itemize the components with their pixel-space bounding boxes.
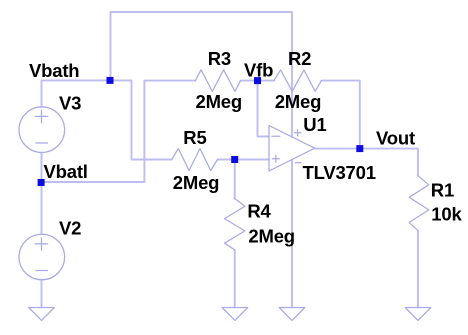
node Vout junction	[356, 145, 363, 152]
svg-text:Vout: Vout	[376, 127, 415, 148]
ground under U1	[279, 308, 305, 321]
node Vfb junction	[254, 77, 261, 84]
wire V3 top to Vbath node to R5 left	[42, 80, 172, 159]
svg-text:Vfb: Vfb	[244, 60, 273, 81]
svg-text:R5: R5	[183, 127, 206, 148]
svg-text:Vbath: Vbath	[29, 60, 79, 81]
svg-text:Vbatl: Vbatl	[44, 161, 88, 182]
ground under V2	[29, 308, 55, 321]
node Vbath junction	[107, 77, 114, 84]
svg-text:U1: U1	[303, 114, 326, 135]
ground under R4	[222, 308, 248, 321]
wire R1 bottom to ground	[417, 231, 419, 308]
svg-text:R4: R4	[247, 200, 271, 221]
wire R5 right through node to U1 non-inverting input	[218, 159, 270, 161]
resistor R2	[274, 70, 322, 91]
node Vbatl junction	[38, 179, 45, 186]
V3 plus mark	[35, 110, 47, 122]
wire V3 bottom to Vbatl node	[41, 153, 43, 183]
voltage source V3 circle	[19, 107, 65, 153]
svg-text:V2: V2	[59, 217, 81, 238]
wire R4 bottom to ground	[234, 250, 236, 308]
wire R3 right through node Vfb to R2 left	[241, 80, 274, 82]
op-amp U1 triangle	[269, 126, 315, 172]
node R5/R4 junction	[231, 156, 238, 163]
wire R2 right down to node Vout	[322, 81, 360, 149]
svg-text:R1: R1	[431, 179, 454, 200]
U1 negative supply minus mark	[295, 162, 301, 164]
resistor R4	[225, 198, 245, 250]
svg-text:R2: R2	[288, 48, 311, 69]
svg-text:2Meg: 2Meg	[248, 225, 295, 246]
resistor R3	[195, 70, 240, 92]
wire node down to R4 top	[234, 160, 236, 199]
svg-text:TLV3701: TLV3701	[303, 162, 376, 183]
svg-text:2Meg: 2Meg	[173, 172, 220, 193]
svg-text:2Meg: 2Meg	[275, 91, 322, 112]
svg-text:V3: V3	[59, 92, 81, 113]
V3 minus mark	[36, 142, 48, 144]
U1 inverting input minus mark	[272, 135, 280, 137]
wire U1 V- pin to ground	[291, 160, 293, 308]
voltage source V2 circle	[19, 234, 65, 280]
svg-text:10k: 10k	[431, 204, 462, 225]
wire V2 bottom to ground	[41, 280, 43, 308]
wire Vbatl node to V2 top	[41, 182, 43, 234]
svg-text:2Meg: 2Meg	[196, 91, 243, 112]
svg-text:R3: R3	[208, 48, 231, 69]
V2 plus mark	[35, 238, 47, 250]
V2 minus mark	[36, 270, 48, 272]
resistor R1	[409, 176, 429, 231]
wire Vbath node up over top to U1 V+ pin	[111, 12, 293, 137]
resistor R5	[172, 149, 218, 171]
ground under R1	[405, 308, 431, 321]
U1 positive supply plus mark	[294, 130, 300, 136]
wire U1 output through node Vout to R1 top	[315, 149, 418, 176]
U1 non-inverting input plus mark	[272, 155, 279, 162]
wire node Vfb to U1 inverting input	[258, 81, 270, 137]
wire Vbatl node to R3 left lead	[42, 81, 196, 182]
